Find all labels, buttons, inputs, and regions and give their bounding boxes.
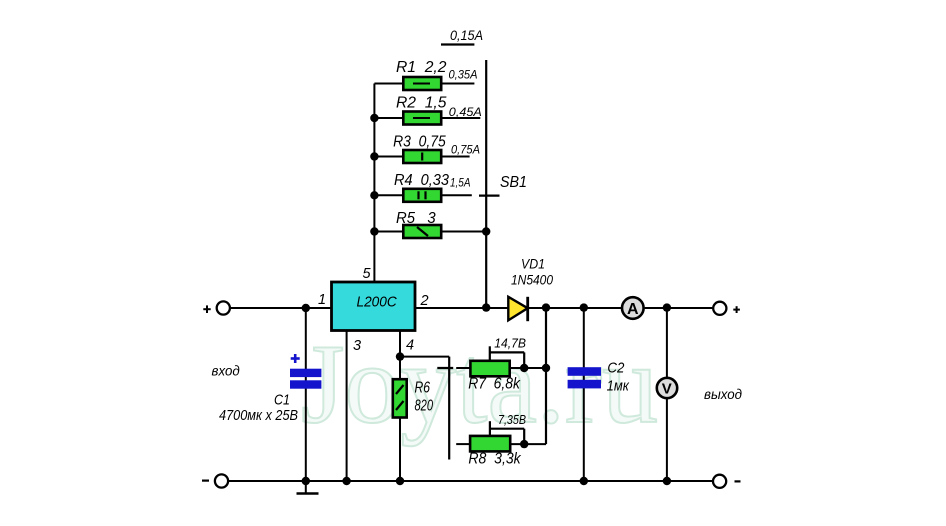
resistor R3 xyxy=(374,156,403,158)
svg-text:4: 4 xyxy=(406,337,414,353)
svg-text:5: 5 xyxy=(363,266,372,282)
svg-text:C1: C1 xyxy=(274,393,290,409)
node bus R4 xyxy=(370,191,378,199)
ammeter A xyxy=(622,297,644,319)
terminal + input xyxy=(217,301,230,314)
terminal - output xyxy=(713,475,726,488)
node C1 top xyxy=(302,304,310,312)
svg-text:R7 6,8k: R7 6,8k xyxy=(468,376,521,393)
regulator IC U1 L200C xyxy=(332,282,416,331)
capacitor C1 xyxy=(290,369,321,377)
svg-text:вход: вход xyxy=(212,362,240,378)
wire C1 branch xyxy=(305,308,307,481)
resistor R7 xyxy=(456,367,470,369)
svg-text:R2 1,5: R2 1,5 xyxy=(396,95,447,112)
node voltmeter bottom xyxy=(663,477,671,485)
svg-text:4700мк x 25В: 4700мк x 25В xyxy=(219,408,298,424)
node pin 4 xyxy=(396,352,404,360)
wire voltmeter branch xyxy=(666,308,668,379)
wire right switch bus xyxy=(485,60,487,308)
node bus R2 xyxy=(370,114,378,122)
node R8 tap xyxy=(520,440,528,448)
node C1 bottom xyxy=(302,477,310,485)
ground xyxy=(305,481,307,494)
svg-text:7,35В: 7,35В xyxy=(498,413,526,427)
resistor R6 xyxy=(393,379,407,417)
resistor R8 xyxy=(456,443,470,445)
svg-text:3: 3 xyxy=(353,338,361,354)
diode VD1 xyxy=(508,297,527,321)
node feedback rail xyxy=(542,303,550,311)
svg-text:R3 0,75: R3 0,75 xyxy=(393,133,446,150)
switch SB1 contact xyxy=(479,195,500,197)
wire pin 5 / left resistor bus xyxy=(373,84,375,283)
node voltmeter top xyxy=(663,303,671,311)
terminal - input xyxy=(215,474,228,487)
resistor R1 xyxy=(374,83,403,85)
switch SB1 contact lower xyxy=(437,367,453,369)
label - output xyxy=(735,480,741,482)
wire C2 branch xyxy=(583,308,585,481)
node R7 tap xyxy=(520,364,528,372)
svg-text:0,75A: 0,75A xyxy=(451,143,480,157)
svg-text:SB1: SB1 xyxy=(500,174,527,191)
svg-text:820: 820 xyxy=(415,398,434,415)
node C2 top xyxy=(580,303,588,311)
node C2 bottom xyxy=(580,477,588,485)
wire 0.15A switch position xyxy=(441,43,474,45)
svg-text:R8 3,3k: R8 3,3k xyxy=(468,451,521,468)
svg-text:A: A xyxy=(627,301,639,318)
wire feedback branch xyxy=(545,308,547,445)
wire R8 tap xyxy=(489,421,491,436)
svg-text:R4 0,33: R4 0,33 xyxy=(394,172,449,189)
svg-text:R6: R6 xyxy=(415,379,431,396)
svg-text:R1 2,2: R1 2,2 xyxy=(396,59,447,76)
wire top rail: diode cathode to ammeter xyxy=(528,307,621,309)
label + output xyxy=(733,309,740,311)
svg-text:VD1: VD1 xyxy=(521,255,545,271)
node pin 3 bottom xyxy=(342,477,350,485)
svg-text:C2: C2 xyxy=(607,361,624,377)
label + input xyxy=(203,308,210,310)
node bus R5 xyxy=(482,227,490,235)
svg-text:1: 1 xyxy=(318,292,326,308)
svg-text:0,35A: 0,35A xyxy=(449,68,478,82)
resistor R5 xyxy=(374,231,403,233)
svg-text:V: V xyxy=(662,381,672,398)
svg-text:0,45A: 0,45A xyxy=(449,105,482,119)
svg-text:1,5A: 1,5A xyxy=(450,176,471,190)
wire top rail: pin 2 to diode anode xyxy=(415,307,508,309)
svg-text:2: 2 xyxy=(420,293,429,309)
label - input xyxy=(202,480,209,482)
terminal + output xyxy=(713,302,726,315)
wire pin 3 xyxy=(346,331,348,482)
wire top rail: left terminal to pin 1 xyxy=(230,307,332,309)
svg-text:1мк: 1мк xyxy=(607,379,630,395)
svg-text:14,7В: 14,7В xyxy=(494,337,526,351)
svg-text:1N5400: 1N5400 xyxy=(511,272,553,288)
node bus rail xyxy=(482,303,490,311)
wire bottom rail xyxy=(229,480,712,482)
node bus R5 left xyxy=(370,227,378,235)
resistor R4 xyxy=(374,194,403,196)
node pin 4 bottom xyxy=(396,477,404,485)
wire top rail: ammeter to right + terminal xyxy=(645,307,713,309)
wire pin 4 xyxy=(399,331,401,482)
wire R7 tap xyxy=(489,346,491,361)
svg-text:0,15A: 0,15A xyxy=(450,28,483,43)
svg-text:R5 3: R5 3 xyxy=(396,210,436,227)
wire SB1 pole from pin 4 xyxy=(400,356,449,358)
node R7 right xyxy=(542,364,550,372)
voltmeter V xyxy=(657,378,677,398)
node bus R3 xyxy=(370,152,378,160)
svg-text:выход: выход xyxy=(704,386,742,402)
svg-text:L200C: L200C xyxy=(357,293,397,310)
resistor R2 xyxy=(374,117,403,119)
capacitor C2 xyxy=(568,367,601,376)
